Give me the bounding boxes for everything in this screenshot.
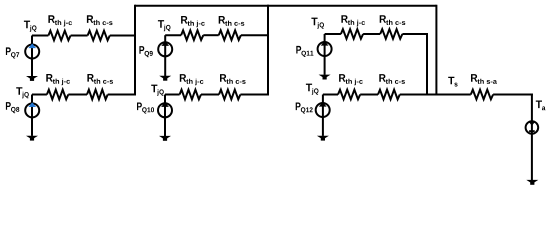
label Rth j-c (3): [341, 15, 365, 26]
label P_Q9: [139, 46, 152, 57]
label Rth j-c (4): [46, 74, 70, 85]
ground: [159, 136, 171, 141]
label T_jQ (2): [158, 20, 171, 31]
wire: [322, 95, 324, 136]
label P_Q11: [296, 46, 313, 57]
resistor R10 (Rth c-s of Q10): [219, 90, 240, 100]
resistor R5 (Rth j-c of Q11): [341, 29, 363, 39]
wire: [164, 35, 166, 76]
label Rth c-s (2): [219, 16, 245, 26]
current source P_Q10: [158, 102, 172, 117]
label T_jQ (1): [24, 21, 37, 32]
wire: [360, 94, 378, 96]
resistor R4 (Rth c-s of Q9): [219, 30, 241, 40]
label node T_a: [536, 101, 546, 111]
resistor R3 (Rth j-c of Q9): [181, 30, 203, 40]
wire: [31, 36, 33, 77]
wire bus right (node 3): [435, 5, 437, 95]
ground: [26, 76, 38, 81]
ground: [319, 75, 331, 80]
label Rth s-a: [471, 74, 497, 84]
wire bus left (node 1): [134, 5, 136, 95]
wire: [165, 94, 180, 96]
wire: [240, 94, 269, 96]
wire: [241, 34, 269, 36]
wire: [110, 35, 136, 37]
label T_jQ (6): [306, 84, 319, 95]
label Rth c-s (6): [379, 74, 405, 84]
wire top rail: [135, 5, 436, 7]
label Rth j-c (2): [181, 16, 205, 27]
wire: [165, 34, 181, 36]
resistor R12 (Rth c-s of Q12): [378, 90, 400, 100]
label Rth j-c (5): [180, 74, 204, 85]
current source P_Q8: [25, 102, 39, 117]
resistor R6 (Rth c-s of Q11): [380, 29, 402, 39]
current source P_Q9: [158, 41, 172, 56]
wire: [493, 94, 533, 96]
label Rth c-s (5): [220, 74, 246, 84]
wire: [71, 35, 88, 37]
resistor R7 (Rth j-c of Q8): [47, 90, 68, 100]
resistor R13 (Rth s-a): [471, 90, 493, 100]
label Rth c-s (3): [380, 15, 406, 25]
wire: [400, 94, 471, 96]
resistor R8 (Rth c-s of Q8): [87, 90, 108, 100]
label Rth j-c (6): [339, 74, 363, 85]
label T_jQ (3): [311, 18, 324, 29]
wire: [402, 33, 427, 35]
wire: [164, 95, 166, 137]
current source P_Q7: [25, 44, 39, 59]
wire: [32, 94, 47, 96]
temperature source T_a: [526, 121, 539, 134]
wire T_a drop: [531, 94, 533, 181]
resistor R9 (Rth j-c of Q10): [180, 90, 201, 100]
ground: [526, 180, 538, 185]
ground: [26, 136, 38, 141]
label P_Q10: [137, 103, 154, 114]
wire drop from branch 3 to Ts rail: [426, 33, 428, 95]
label node T_s: [448, 77, 457, 87]
ground: [159, 76, 171, 81]
wire: [203, 34, 218, 36]
label T_jQ (5): [151, 85, 164, 96]
label P_Q12: [296, 103, 313, 114]
wire: [68, 94, 87, 96]
wire bus middle (node 2): [267, 5, 269, 95]
label Rth c-s (1): [87, 15, 113, 25]
label T_jQ (4): [16, 87, 29, 98]
resistor R11 (Rth j-c of Q12): [338, 90, 360, 100]
ground: [317, 136, 329, 141]
wire: [325, 33, 341, 35]
wire: [363, 33, 380, 35]
label P_Q8: [6, 102, 19, 113]
wire: [31, 95, 33, 136]
wire: [324, 34, 326, 75]
wire: [108, 94, 136, 96]
wire: [32, 35, 48, 37]
wire: [323, 94, 338, 96]
label Rth j-c (1): [48, 15, 72, 26]
resistor R2 (Rth c-s of Q7): [88, 31, 110, 41]
label Rth c-s (4): [87, 74, 113, 84]
label P_Q7: [6, 47, 19, 58]
current source P_Q11: [318, 41, 332, 56]
resistor R1 (Rth j-c of Q7): [48, 31, 70, 41]
current source P_Q12: [316, 102, 330, 117]
wire: [201, 94, 219, 96]
